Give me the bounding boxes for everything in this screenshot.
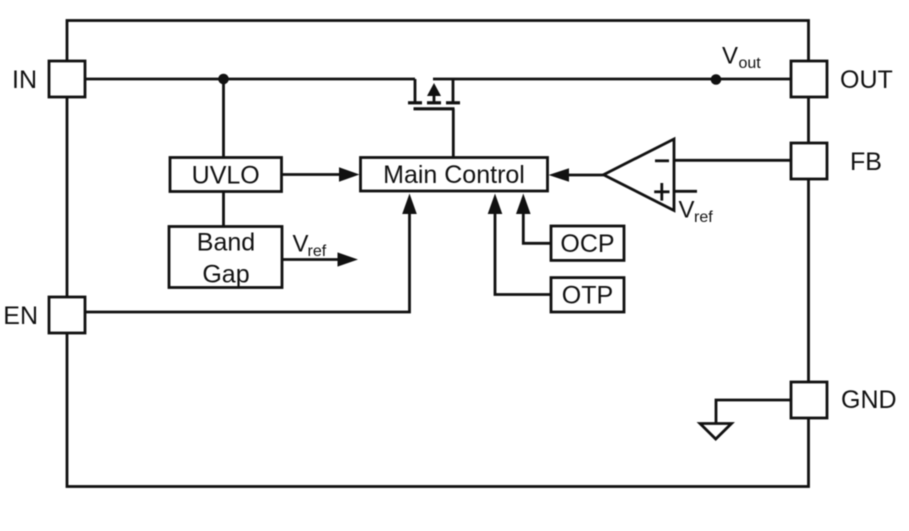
svg-text:V: V xyxy=(679,197,695,224)
svg-text:FB: FB xyxy=(850,148,882,176)
wire UVLO to Main Control xyxy=(282,173,347,176)
label Vout xyxy=(722,43,761,73)
arrowhead UVLO to Main Control xyxy=(339,167,360,182)
drain lead xyxy=(452,79,455,102)
gate wire to Main Control xyxy=(452,109,455,158)
arrowhead OCP into Main Control xyxy=(516,194,531,215)
wire node to UVLO xyxy=(222,79,225,158)
arrowhead EN into Main Control xyxy=(402,194,417,215)
pin GND xyxy=(791,382,897,418)
pin OUT xyxy=(791,61,893,97)
pin FB xyxy=(791,143,882,179)
source contact bar xyxy=(408,101,422,104)
svg-text:out: out xyxy=(739,55,762,72)
Band Gap block xyxy=(169,227,282,289)
svg-text:EN: EN xyxy=(3,302,38,330)
wire FB to comparator xyxy=(674,159,791,162)
body arrow xyxy=(427,83,441,96)
wire GND pin to ground symbol xyxy=(716,400,791,424)
case border xyxy=(67,21,809,487)
svg-text:IN: IN xyxy=(12,66,37,94)
svg-text:V: V xyxy=(722,43,738,70)
wire top rail left (IN to pass FET source) xyxy=(85,78,415,81)
label Vref (band gap output) xyxy=(293,231,327,260)
pin IN xyxy=(12,61,85,97)
node Vout junction dot xyxy=(711,74,722,85)
wire comparator output to Main Control xyxy=(556,174,604,177)
transistor Q1 (PMOS pass element) xyxy=(408,79,460,158)
drain contact bar xyxy=(446,101,460,104)
svg-text:ref: ref xyxy=(308,243,327,260)
minus input mark xyxy=(655,159,669,162)
UVLO block xyxy=(170,158,282,192)
wire top rail right (pass FET to OUT) xyxy=(433,78,791,81)
pin EN xyxy=(3,297,85,333)
node junction dot at IN rail xyxy=(218,74,229,85)
wire Vref stub to comparator + input xyxy=(674,190,697,193)
wire UVLO to Band Gap xyxy=(222,192,225,227)
svg-text:ref: ref xyxy=(694,209,713,226)
svg-text:GND: GND xyxy=(841,386,897,414)
svg-text:UVLO: UVLO xyxy=(192,162,260,190)
arrowhead Band Gap Vref output xyxy=(338,252,359,266)
Main Control block xyxy=(361,158,548,192)
svg-text:OTP: OTP xyxy=(562,282,613,310)
wire Band Gap Vref output xyxy=(282,258,344,261)
source lead xyxy=(414,79,417,102)
plus input mark xyxy=(654,190,669,193)
ground symbol xyxy=(700,424,732,440)
arrowhead comparator output into Main Control xyxy=(549,168,570,181)
svg-text:V: V xyxy=(293,231,309,258)
gate line xyxy=(414,107,455,110)
wire OCP to Main Control xyxy=(523,198,551,243)
wire EN to Main Control xyxy=(85,200,410,312)
body contact bar xyxy=(427,101,441,104)
OTP block xyxy=(551,278,624,312)
wire OTP to Main Control xyxy=(495,198,551,295)
svg-text:Gap: Gap xyxy=(202,260,249,288)
arrowhead OTP into Main Control xyxy=(488,194,503,215)
OCP block xyxy=(551,226,624,260)
svg-text:Main Control: Main Control xyxy=(383,161,525,189)
op-amp U1 (error comparator) xyxy=(604,139,675,211)
label Vref (comparator + input) xyxy=(679,197,714,226)
svg-text:Band: Band xyxy=(197,228,255,256)
svg-text:OUT: OUT xyxy=(840,66,893,94)
svg-text:OCP: OCP xyxy=(560,230,614,258)
